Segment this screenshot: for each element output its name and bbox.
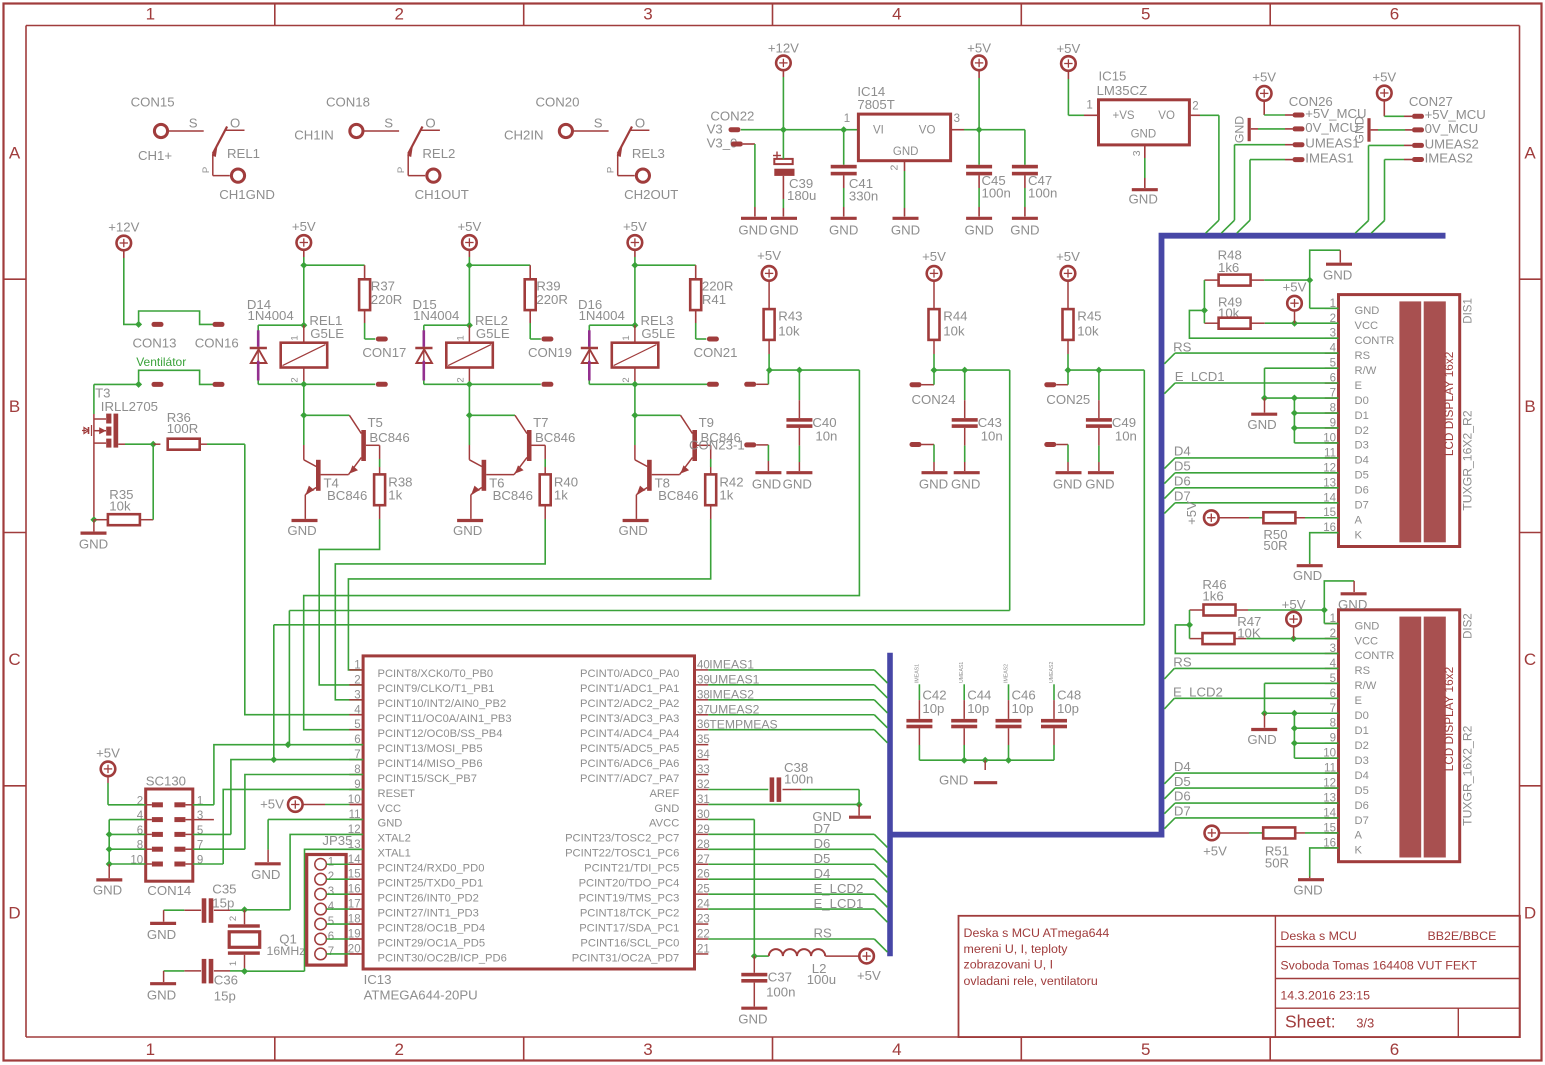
- capacitor C41 330n: [831, 130, 879, 217]
- net labels D7-D4 E_LCD2 E_LCD1 RS at MCU: [814, 821, 864, 941]
- power +12V P1: [768, 41, 799, 71]
- wire SC130 pin3 stub: [185, 819, 214, 821]
- svg-text:CH1+: CH1+: [138, 148, 172, 163]
- svg-text:1k: 1k: [719, 488, 733, 503]
- relay contact REL2: [396, 116, 455, 176]
- svg-text:PCINT31/OC2A_PD7: PCINT31/OC2A_PD7: [572, 952, 680, 964]
- svg-text:2: 2: [394, 5, 403, 24]
- net label E_LCD1: [1164, 369, 1338, 394]
- svg-text:4: 4: [328, 901, 335, 913]
- svg-text:R41: R41: [702, 292, 726, 307]
- pad CON16.2: [213, 382, 225, 387]
- pin 0V_MCU (CON27.2): [1371, 121, 1479, 136]
- svg-text:T5: T5: [368, 415, 383, 430]
- power +5V P5 (CON27): [1372, 70, 1396, 101]
- resistor R50 50R: [1218, 512, 1339, 553]
- svg-text:4: 4: [892, 5, 901, 24]
- relay coil REL3 G5LE: [612, 313, 676, 384]
- svg-text:1: 1: [844, 113, 850, 125]
- wire R45 drop to MISO junction: [273, 625, 275, 760]
- svg-text:2: 2: [394, 1040, 403, 1059]
- IC15 LM35CZ temperature sensor: [1086, 68, 1198, 156]
- svg-text:D7: D7: [1174, 804, 1191, 819]
- svg-text:10n: 10n: [1115, 429, 1137, 444]
- svg-text:IMEAS1: IMEAS1: [914, 664, 920, 683]
- svg-text:34: 34: [697, 749, 710, 761]
- svg-text:3: 3: [954, 113, 960, 125]
- net stub IMEAS2: [1004, 664, 1010, 719]
- svg-text:VCC: VCC: [378, 803, 402, 815]
- svg-text:+5V: +5V: [1282, 597, 1306, 612]
- svg-text:1k6: 1k6: [1218, 260, 1239, 275]
- svg-text:D: D: [8, 903, 20, 922]
- svg-text:+12V: +12V: [108, 220, 139, 235]
- ground GND (T3 source): [79, 520, 108, 552]
- resistor R35 10k: [90, 444, 153, 525]
- transistor T7 BC846: [469, 415, 575, 474]
- svg-text:Deska s MCU: Deska s MCU: [1280, 929, 1356, 943]
- svg-text:PCINT24/RXD0_PD0: PCINT24/RXD0_PD0: [378, 863, 485, 875]
- svg-text:E_LCD2: E_LCD2: [1173, 684, 1223, 699]
- svg-text:ovladani rele, ventilatoru: ovladani rele, ventilatoru: [964, 974, 1098, 988]
- svg-text:D0: D0: [1355, 395, 1369, 407]
- svg-text:B: B: [9, 397, 20, 416]
- connector CON25 pin2 to GND: [1044, 442, 1068, 471]
- power +5V (DIS1 VCC): [1283, 280, 1307, 324]
- ground GND (DIS2 K): [1293, 880, 1324, 898]
- pad CON pin (top): [376, 337, 388, 342]
- ground GND (DIS2 pin1): [1338, 594, 1367, 612]
- svg-text:GND: GND: [769, 222, 798, 237]
- svg-text:100n: 100n: [784, 772, 813, 787]
- wire R38 to MCU: [319, 505, 379, 685]
- svg-text:+5V: +5V: [1184, 501, 1199, 525]
- net label RS (DIS2): [1164, 655, 1338, 679]
- resistor R39 220R: [525, 265, 568, 339]
- svg-text:VO: VO: [919, 125, 936, 137]
- svg-text:P: P: [201, 167, 212, 173]
- diode D15 1N4004: [413, 297, 470, 384]
- svg-text:7805T: 7805T: [857, 97, 894, 112]
- svg-text:BC846: BC846: [658, 488, 698, 503]
- capacitor C38 100n (AREF): [708, 760, 859, 805]
- svg-text:3: 3: [643, 5, 652, 24]
- svg-text:K: K: [1355, 530, 1363, 542]
- svg-text:CON24: CON24: [912, 392, 956, 407]
- svg-text:GND: GND: [1293, 568, 1322, 583]
- MCU IC13 ATMEGA644-20PU: [348, 656, 711, 1003]
- wire +5V to coil/R resistor: [466, 249, 530, 325]
- svg-text:PCINT12/OC0B/SS_PB4: PCINT12/OC0B/SS_PB4: [378, 728, 503, 740]
- svg-text:1N4004: 1N4004: [413, 308, 459, 323]
- svg-text:35: 35: [697, 734, 710, 746]
- wire SC130 even pins to GND: [106, 820, 152, 879]
- connector CON13: [133, 322, 177, 351]
- svg-text:3: 3: [643, 1040, 652, 1059]
- svg-text:C42: C42: [922, 687, 946, 702]
- svg-text:UMEAS2: UMEAS2: [1049, 662, 1055, 683]
- svg-text:A: A: [1355, 830, 1363, 842]
- svg-text:PCINT20/TDO_PC4: PCINT20/TDO_PC4: [579, 878, 680, 890]
- svg-text:CON19: CON19: [528, 345, 572, 360]
- capacitor C43 10n: [952, 370, 1003, 471]
- svg-text:E: E: [1355, 380, 1362, 392]
- svg-text:1k: 1k: [554, 488, 568, 503]
- svg-text:330n: 330n: [849, 189, 878, 204]
- svg-text:REL1: REL1: [227, 146, 260, 161]
- svg-text:PCINT9/CLKO/T1_PB1: PCINT9/CLKO/T1_PB1: [378, 683, 495, 695]
- ground GND (DIS1 pin1): [1323, 264, 1352, 282]
- svg-text:PCINT2/ADC2_PA2: PCINT2/ADC2_PA2: [580, 698, 679, 710]
- svg-text:GND: GND: [919, 477, 948, 492]
- svg-text:21: 21: [697, 943, 710, 955]
- svg-text:PCINT15/SCK_PB7: PCINT15/SCK_PB7: [378, 773, 478, 785]
- power +5V (L2): [857, 949, 881, 983]
- svg-text:CON23-1: CON23-1: [689, 437, 745, 452]
- power +5V (DIS2 backlight): [1203, 826, 1227, 859]
- svg-text:DIS2: DIS2: [1463, 613, 1475, 639]
- ground GND (10p caps): [939, 772, 997, 787]
- svg-text:LCD DISPLAY 16x2: LCD DISPLAY 16x2: [1442, 667, 1456, 771]
- svg-text:29: 29: [697, 824, 710, 836]
- svg-text:PCINT23/TOSC2_PC7: PCINT23/TOSC2_PC7: [565, 833, 679, 845]
- connector CON27: [1409, 94, 1453, 109]
- svg-text:6: 6: [1390, 1040, 1399, 1059]
- ground GND (SC130): [93, 880, 122, 897]
- svg-text:10p: 10p: [922, 701, 944, 716]
- ground GND (C35): [147, 923, 176, 942]
- svg-text:O: O: [425, 116, 435, 131]
- svg-text:REL3: REL3: [632, 146, 665, 161]
- svg-text:PCINT16/SCL_PC0: PCINT16/SCL_PC0: [580, 937, 679, 949]
- wire R40 to MCU: [335, 505, 545, 700]
- svg-text:1: 1: [328, 856, 334, 868]
- svg-text:10n: 10n: [815, 429, 837, 444]
- resistor R44 10k: [929, 280, 968, 370]
- svg-text:GND: GND: [453, 523, 482, 538]
- svg-text:C44: C44: [967, 687, 991, 702]
- svg-text:6: 6: [328, 931, 334, 943]
- svg-text:+5V: +5V: [457, 219, 481, 234]
- connector CON18: [326, 94, 370, 109]
- svg-text:+5V: +5V: [967, 41, 991, 56]
- svg-text:GND: GND: [251, 867, 280, 882]
- svg-text:180u: 180u: [787, 188, 816, 203]
- pad CON pin (top): [707, 337, 719, 342]
- svg-text:RS: RS: [1355, 350, 1371, 362]
- svg-text:AREF: AREF: [649, 788, 679, 800]
- wire DIS1 K to GND: [1310, 533, 1339, 564]
- resistor R51 50R: [1219, 827, 1339, 870]
- wire +12V to CON13: [124, 250, 142, 328]
- svg-text:100n: 100n: [1028, 186, 1057, 201]
- svg-text:100R: 100R: [167, 421, 199, 436]
- svg-text:CH1GND: CH1GND: [219, 187, 275, 202]
- svg-text:IC13: IC13: [364, 972, 392, 987]
- svg-text:IRLL2705: IRLL2705: [101, 399, 158, 414]
- wire R42 to MCU: [348, 505, 710, 670]
- svg-text:PCINT11/OC0A/AIN1_PB3: PCINT11/OC0A/AIN1_PB3: [378, 713, 512, 725]
- svg-text:30: 30: [697, 809, 710, 821]
- wires MCU pins 40-36 to bus: [708, 670, 887, 743]
- resistor R37 220R: [359, 265, 402, 339]
- svg-text:PCINT29/OC1A_PD5: PCINT29/OC1A_PD5: [378, 937, 486, 949]
- svg-text:D3: D3: [1355, 440, 1369, 452]
- svg-text:0V_MCU: 0V_MCU: [1425, 121, 1479, 136]
- svg-text:R/W: R/W: [1355, 680, 1377, 692]
- ground GND (CON26, rotated): [1233, 116, 1250, 143]
- svg-text:26: 26: [697, 869, 710, 881]
- svg-text:GND: GND: [1053, 477, 1082, 492]
- svg-text:PCINT19/TMS_PC3: PCINT19/TMS_PC3: [579, 892, 680, 904]
- svg-text:+5V: +5V: [260, 797, 284, 812]
- power +5V (DIS2 VCC): [1282, 597, 1306, 639]
- svg-text:+5V: +5V: [292, 219, 316, 234]
- svg-text:3: 3: [354, 689, 360, 701]
- svg-text:GND: GND: [964, 222, 993, 237]
- connector CON16: [195, 322, 239, 351]
- power +5V (R45): [1056, 249, 1080, 281]
- svg-text:R/W: R/W: [1355, 365, 1377, 377]
- capacitor C48 10p: [1041, 687, 1081, 760]
- svg-text:mereni U, I, teploty: mereni U, I, teploty: [964, 942, 1069, 956]
- svg-text:IMEAS2: IMEAS2: [1425, 150, 1473, 165]
- svg-text:+5V: +5V: [1283, 280, 1307, 295]
- svg-text:GND: GND: [1085, 477, 1114, 492]
- svg-text:AVCC: AVCC: [649, 818, 679, 830]
- svg-text:GND: GND: [1353, 116, 1367, 143]
- ground GND (DIS1 R/W): [1247, 414, 1277, 432]
- svg-text:10p: 10p: [1057, 701, 1079, 716]
- wire R43 node to MCU pin5: [304, 367, 860, 730]
- svg-text:C: C: [1524, 650, 1536, 669]
- connector label CON19: [528, 345, 572, 360]
- wire coil bottom rail: [258, 381, 375, 419]
- wire +12V to V3 node: [782, 70, 784, 130]
- svg-text:39: 39: [697, 674, 710, 686]
- bus B1 (signal bus): [890, 236, 1446, 957]
- svg-text:S: S: [594, 116, 603, 131]
- svg-text:GND: GND: [618, 523, 647, 538]
- svg-text:C: C: [8, 650, 20, 669]
- net stub UMEAS2: [1049, 662, 1055, 719]
- wire SC130 pin1 MOSI: [185, 741, 363, 805]
- connector CON23 pin1 pad: [744, 370, 768, 387]
- pad CON pin (top): [541, 337, 553, 342]
- svg-text:15p: 15p: [212, 896, 234, 911]
- svg-text:3/3: 3/3: [1356, 1016, 1374, 1031]
- svg-text:GND: GND: [287, 523, 316, 538]
- svg-text:Ventilátor: Ventilátor: [136, 355, 186, 369]
- svg-text:JP35: JP35: [322, 833, 352, 848]
- svg-text:+5V: +5V: [1056, 41, 1080, 56]
- svg-text:CON17: CON17: [362, 345, 406, 360]
- svg-text:GND: GND: [93, 882, 122, 897]
- svg-text:REL2: REL2: [422, 146, 455, 161]
- capacitor C36 15p: [164, 959, 245, 1004]
- svg-text:+5V: +5V: [1252, 70, 1276, 85]
- svg-text:PCINT25/TXD0_PD1: PCINT25/TXD0_PD1: [378, 878, 484, 890]
- svg-text:D3: D3: [1355, 755, 1369, 767]
- ground GND (T8 emitter): [618, 521, 648, 539]
- svg-text:XTAL1: XTAL1: [378, 848, 411, 860]
- pin +5V_MCU (CON27.1): [1384, 100, 1486, 123]
- ground GND (C47): [1010, 218, 1039, 237]
- connector CON25 pin1: [1044, 370, 1090, 407]
- ground GND (IC14): [891, 218, 920, 237]
- power +12V P10 (fan): [108, 220, 139, 251]
- pad CON20.S with CH label: [504, 116, 609, 143]
- wire V3_ to GND: [743, 144, 755, 217]
- wire +5V to coil/R resistor: [631, 249, 695, 325]
- svg-text:GND: GND: [783, 477, 812, 492]
- svg-text:15p: 15p: [214, 988, 236, 1003]
- svg-text:UMEAS1: UMEAS1: [959, 662, 965, 683]
- svg-text:SC130: SC130: [146, 773, 186, 788]
- capacitor C42 10p: [906, 687, 946, 760]
- svg-text:CON20: CON20: [536, 94, 580, 109]
- pad CON13.2: [152, 382, 164, 387]
- ground GND (T6 emitter): [453, 521, 483, 539]
- svg-text:GND: GND: [1293, 883, 1322, 898]
- svg-text:TUXGR_16X2_R2: TUXGR_16X2_R2: [1461, 725, 1475, 825]
- resistor R38 1k: [374, 445, 412, 505]
- svg-text:33: 33: [697, 764, 710, 776]
- connector SC130 CON14: [130, 773, 203, 898]
- svg-text:+5V: +5V: [1203, 844, 1227, 859]
- relay contact REL1: [201, 116, 260, 176]
- svg-text:5: 5: [354, 719, 360, 731]
- crystal Q1 16MHz: [228, 910, 306, 971]
- wire XTAL1 net: [241, 849, 363, 974]
- svg-text:CONTR: CONTR: [1355, 650, 1395, 662]
- svg-text:GND: GND: [1323, 267, 1352, 282]
- power +5V P4 (CON26): [1252, 70, 1276, 101]
- svg-text:+5V: +5V: [757, 248, 781, 263]
- svg-text:PCINT3/ADC3_PA3: PCINT3/ADC3_PA3: [580, 713, 679, 725]
- svg-text:28: 28: [697, 839, 710, 851]
- svg-text:40: 40: [697, 659, 710, 671]
- svg-text:Svoboda Tomas 164408 VUT FEKT: Svoboda Tomas 164408 VUT FEKT: [1280, 959, 1477, 973]
- svg-text:3: 3: [1131, 150, 1143, 156]
- svg-text:GND: GND: [1247, 732, 1276, 747]
- svg-text:10p: 10p: [967, 701, 989, 716]
- diode D14 1N4004: [247, 297, 304, 384]
- svg-text:CON25: CON25: [1046, 392, 1090, 407]
- svg-text:CH1OUT: CH1OUT: [415, 187, 469, 202]
- svg-text:CON14: CON14: [147, 883, 191, 898]
- svg-text:GND: GND: [939, 772, 968, 787]
- power +5V (DIS1 backlight, rotated label): [1184, 501, 1219, 525]
- net labels D4-D7 (DIS1): [1164, 444, 1338, 514]
- pad CON pin (bottom): [707, 382, 719, 387]
- svg-text:CON18: CON18: [326, 94, 370, 109]
- svg-text:CON13: CON13: [133, 336, 177, 351]
- svg-text:D1: D1: [1355, 725, 1369, 737]
- connector CON20: [536, 94, 580, 109]
- svg-text:RS: RS: [1173, 655, 1192, 670]
- ground GND (CON25.2): [1053, 473, 1082, 492]
- resistor R40 1k: [540, 445, 578, 505]
- wire SC130 pin5 MISO: [185, 756, 363, 834]
- svg-text:PCINT30/OC2B/ICP_PD6: PCINT30/OC2B/ICP_PD6: [378, 952, 507, 964]
- resistor R47 10K: [1190, 614, 1339, 644]
- diode D16 1N4004: [578, 297, 635, 384]
- wire DIS2 CONTR: [1175, 625, 1338, 654]
- svg-text:S: S: [189, 116, 198, 131]
- svg-text:4: 4: [892, 1040, 901, 1059]
- pad CON20.P with label CH2OUT: [624, 169, 678, 202]
- svg-text:BC846: BC846: [327, 488, 367, 503]
- svg-text:PCINT6/ADC6_PA6: PCINT6/ADC6_PA6: [580, 758, 679, 770]
- connector label CON21: [694, 345, 738, 360]
- svg-text:VCC: VCC: [1355, 635, 1379, 647]
- svg-text:DIS1: DIS1: [1463, 298, 1475, 324]
- svg-text:3: 3: [328, 886, 334, 898]
- svg-text:10p: 10p: [1012, 701, 1034, 716]
- svg-text:100u: 100u: [807, 972, 836, 987]
- svg-text:D5: D5: [1174, 459, 1191, 474]
- svg-text:GND: GND: [891, 222, 920, 237]
- power +5V P2 (IC14 out): [967, 41, 991, 71]
- svg-text:LCD DISPLAY 16x2: LCD DISPLAY 16x2: [1442, 352, 1456, 456]
- svg-text:1: 1: [228, 961, 239, 966]
- wire DIS1 pin1 GND net: [1310, 250, 1341, 308]
- svg-text:BC846: BC846: [493, 488, 533, 503]
- svg-text:D5: D5: [1355, 785, 1369, 797]
- pad CON pin (bottom): [541, 382, 553, 387]
- transistor T9 BC846: [635, 415, 741, 474]
- svg-text:T7: T7: [533, 415, 548, 430]
- svg-text:V3: V3: [707, 121, 723, 136]
- svg-text:GND: GND: [378, 818, 403, 830]
- capacitor C40 10n: [786, 370, 837, 471]
- svg-text:PCINT10/INT2/AIN0_PB2: PCINT10/INT2/AIN0_PB2: [378, 698, 507, 710]
- svg-text:32: 32: [697, 779, 710, 791]
- svg-text:5: 5: [328, 916, 334, 928]
- svg-text:1N4004: 1N4004: [579, 308, 625, 323]
- ground GND (C49): [1085, 473, 1114, 492]
- wire DIS1 CONTR: [1189, 310, 1338, 338]
- svg-text:PCINT21/TDI_PC5: PCINT21/TDI_PC5: [584, 863, 679, 875]
- svg-text:G5LE: G5LE: [310, 326, 344, 341]
- power +5V (MCU VCC pin10): [260, 797, 363, 812]
- svg-text:D: D: [1524, 903, 1536, 922]
- svg-text:A: A: [9, 144, 21, 163]
- svg-text:E: E: [1355, 695, 1362, 707]
- svg-text:GND: GND: [1247, 417, 1276, 432]
- wire coil bottom rail: [424, 381, 541, 419]
- svg-text:10k: 10k: [1077, 323, 1099, 338]
- ground GND (IC15): [1129, 190, 1158, 207]
- wire DIS2 pin1 GND net: [1324, 581, 1354, 624]
- svg-text:XTAL2: XTAL2: [378, 833, 411, 845]
- wire +5V rail at IC14 output: [951, 70, 1025, 134]
- svg-text:K: K: [1355, 845, 1363, 857]
- ground GND (MCU pin11): [251, 864, 281, 882]
- svg-text:31: 31: [697, 794, 710, 806]
- svg-text:LM35CZ: LM35CZ: [1097, 83, 1148, 98]
- svg-text:zobrazovani U, I: zobrazovani U, I: [964, 958, 1054, 972]
- svg-text:GND: GND: [147, 987, 176, 1002]
- svg-text:C48: C48: [1057, 687, 1081, 702]
- svg-text:BC846: BC846: [535, 430, 575, 445]
- net label E_LCD2: [1164, 684, 1338, 709]
- wire IC15 VO to bus (TEMPMEAS): [1189, 115, 1219, 233]
- svg-text:PCINT27/INT1_PD3: PCINT27/INT1_PD3: [378, 907, 479, 919]
- ground GND (C39): [769, 218, 798, 237]
- svg-text:D7: D7: [1355, 500, 1369, 512]
